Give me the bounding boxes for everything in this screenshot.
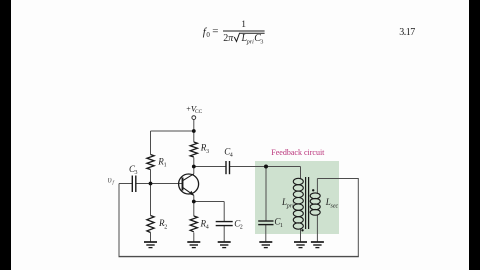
svg-text:1: 1	[280, 223, 283, 229]
svg-text:1: 1	[164, 163, 167, 169]
svg-text:2: 2	[240, 225, 243, 231]
svg-text:4: 4	[230, 153, 233, 159]
svg-text:Feedback circuit: Feedback circuit	[271, 148, 325, 157]
svg-text:sec: sec	[331, 203, 339, 209]
svg-text:υ: υ	[108, 175, 112, 185]
svg-text:2: 2	[164, 224, 167, 230]
svg-text:f: f	[112, 179, 115, 186]
svg-text:CC: CC	[195, 109, 203, 115]
svg-text:4: 4	[206, 225, 209, 231]
svg-text:pri: pri	[286, 203, 294, 209]
svg-text:3: 3	[135, 170, 138, 176]
svg-text:3: 3	[206, 149, 209, 155]
